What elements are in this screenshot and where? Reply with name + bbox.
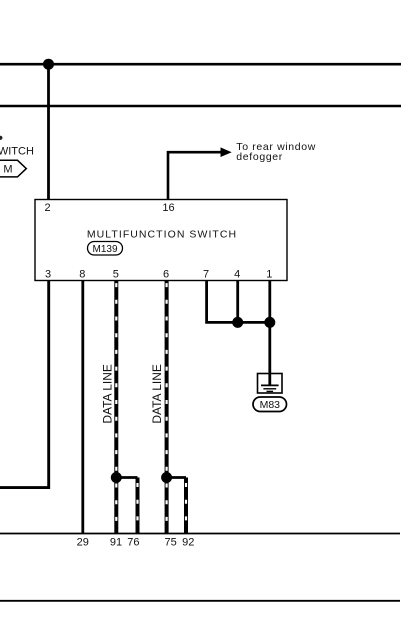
svg-text:16: 16 (162, 202, 174, 214)
wire: pin 3 elbow to left edge (0, 281, 49, 488)
svg-text:1: 1 (266, 269, 272, 281)
svg-text:7: 7 (203, 269, 209, 281)
svg-text:DATA LINE: DATA LINE (101, 364, 115, 424)
wire: pin 8 down to terminal 29 (81, 281, 84, 534)
label: To rear window defogger (236, 141, 316, 163)
svg-text:75: 75 (164, 537, 176, 549)
svg-text:defogger: defogger (236, 151, 283, 163)
svg-text:8: 8 (79, 269, 85, 281)
svg-text:2: 2 (44, 202, 50, 214)
wire: pin 16 riser to defogger arrow (168, 152, 223, 199)
wire: pin 4 down (236, 281, 239, 323)
wire: riser from top bus to pin 2 (47, 64, 50, 200)
svg-text:29: 29 (77, 537, 89, 549)
node: junction dot at pin 1 (264, 317, 275, 328)
svg-text:M: M (3, 164, 12, 176)
node: junction on data line 2 (161, 472, 172, 483)
wire: lower connector rail (0, 533, 400, 535)
svg-text:M83: M83 (260, 399, 281, 411)
text fragment at left edge (clipped) (0, 136, 2, 140)
connector tag M (off-page arrow, clipped) (0, 160, 26, 177)
wire: data line 1 (pin 5) (114, 281, 118, 534)
wire: bottom rail (0, 600, 400, 602)
wire: second supply bus (0, 105, 401, 108)
svg-text:76: 76 (127, 537, 139, 549)
svg-text:MULTIFUNCTION SWITCH: MULTIFUNCTION SWITCH (87, 228, 237, 240)
svg-text:DATA LINE: DATA LINE (150, 364, 164, 424)
svg-text:6: 6 (163, 269, 169, 281)
wire: top supply bus (0, 63, 401, 66)
svg-text:4: 4 (234, 269, 240, 281)
node: junction dot on top bus (43, 59, 54, 70)
wire: branch from data line 2 junction (167, 478, 186, 534)
svg-text:92: 92 (182, 537, 194, 549)
node: junction dot at pin 4 (232, 317, 243, 328)
svg-text:M139: M139 (92, 244, 117, 255)
svg-text:5: 5 (113, 269, 119, 281)
wire: pin 1 down (268, 281, 271, 323)
svg-text:91: 91 (110, 537, 122, 549)
svg-text:3: 3 (45, 269, 51, 281)
connector label M83 (253, 397, 287, 412)
connector label M139 (88, 242, 123, 256)
component box: MULTIFUNCTION SWITCH (35, 200, 287, 281)
wire: data line 2 (pin 6) (165, 281, 169, 534)
wire: down to ground (268, 322, 271, 385)
wire: branch from data line 1 junction (116, 478, 137, 534)
ground symbol M83 (258, 374, 283, 394)
wire: pin 7 down and across to pins 4/1 (207, 281, 270, 323)
arrowhead: to rear window defogger (221, 147, 232, 157)
svg-text:SWITCH: SWITCH (0, 145, 34, 157)
node: junction on data line 1 (111, 472, 122, 483)
